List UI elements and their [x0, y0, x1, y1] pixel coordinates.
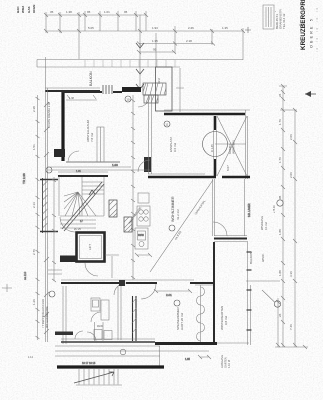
svg-text:WINDFANG: WINDFANG: [260, 216, 264, 230]
svg-text:95: 95: [124, 10, 128, 14]
svg-text:1.93: 1.93: [112, 163, 118, 167]
dining west double wall line: [149, 95, 152, 174]
nook labels: [210, 140, 236, 171]
svg-text:R 1.45: R 1.45: [210, 144, 214, 152]
stair entry door arc: [60, 217, 75, 232]
living room diagonal dimension: [150, 180, 213, 272]
dining nook top wall: [164, 110, 250, 114]
svg-text:1.51: 1.51: [32, 144, 36, 150]
benchmark cross: [245, 27, 251, 33]
stairwell wall stubs: [40, 179, 58, 181]
windfang note: [260, 216, 268, 230]
svg-text:WMZ: WMZ: [21, 6, 25, 13]
svg-text:1.26: 1.26: [32, 299, 36, 305]
passage verticals: [213, 179, 252, 236]
svg-text:1.93: 1.93: [152, 26, 158, 30]
corridor upper boundary lines: [48, 163, 150, 173]
glass east wall: [246, 110, 248, 179]
svg-text:41.2 m2: 41.2 m2: [176, 209, 180, 220]
wintergarten label: [220, 306, 228, 330]
storage room label: [86, 119, 94, 142]
south facade thick wall: [57, 365, 164, 368]
svg-text:2.38: 2.38: [32, 106, 36, 112]
left dimension numbers: [32, 106, 36, 305]
pier left of mid wall gap: [119, 280, 125, 286]
kitchen appliances: [135, 193, 152, 257]
svg-text:BALKON: BALKON: [249, 252, 253, 264]
storage room door arc: [68, 151, 79, 162]
svg-text:HART 20 m2: HART 20 m2: [180, 312, 184, 330]
door jamb hatch: [103, 85, 112, 94]
right dimension numbers: [273, 93, 293, 330]
svg-text:26: 26: [278, 313, 282, 317]
stairwell outer wall hatched: [42, 178, 44, 233]
hatched pier lower: [124, 217, 132, 232]
svg-text:11: 11: [165, 122, 168, 126]
svg-text:10: 10: [126, 97, 130, 101]
address small text block: [275, 8, 286, 29]
round table: [203, 132, 228, 157]
wall chunk west of lift: [60, 256, 77, 263]
margin note left low: [41, 291, 55, 328]
wall over wintergarten: [195, 284, 213, 286]
svg-text:TEL 614 32: TEL 614 32: [282, 13, 286, 29]
dining nook west wall: [214, 116, 217, 176]
svg-text:KREUZBERGPRI: KREUZBERGPRI: [300, 0, 307, 50]
svg-text:2.01: 2.01: [166, 293, 172, 297]
lower stair steps: [74, 220, 122, 385]
svg-text:18 17 16 15: 18 17 16 15: [82, 362, 96, 365]
svg-text:9.8 m2: 9.8 m2: [224, 315, 228, 325]
svg-text:BAD: BAD: [16, 6, 20, 13]
svg-text:WOHNZIMMER: WOHNZIMMER: [171, 196, 175, 222]
svg-text:1.76: 1.76: [278, 157, 282, 163]
svg-text:60/60: 60/60: [138, 235, 144, 237]
wall pier blob: [54, 149, 65, 157]
svg-text:1.14: 1.14: [28, 356, 33, 359]
svg-text:OFEN: OFEN: [32, 5, 36, 13]
terrace door swing arc: [138, 95, 150, 107]
lift shaft: [77, 233, 105, 262]
inner left dimension segment: [52, 177, 56, 282]
svg-text:*: *: [275, 11, 278, 12]
wintergarten west wall: [213, 242, 215, 344]
svg-text:+75.00: +75.00: [273, 205, 276, 213]
storage shelf line: [66, 99, 97, 101]
chimney hatch block: [143, 83, 166, 103]
svg-text:1.88: 1.88: [278, 229, 282, 235]
chimney shaft: [156, 67, 185, 112]
left outer wall: [46, 57, 48, 342]
svg-text:BALKON: BALKON: [89, 71, 93, 86]
nook diagonals: [215, 116, 247, 176]
dimension extension verticals top: [46, 11, 243, 88]
top dimension chain row 3: [137, 42, 215, 46]
svg-text:2.06: 2.06: [289, 134, 293, 140]
right dimension chain: [275, 84, 308, 349]
masonry hatch ticks: [44, 102, 49, 334]
dimension numbers top: [50, 10, 303, 52]
svg-text:1.35: 1.35: [152, 39, 158, 43]
lift door arc: [85, 263, 98, 276]
top dimension chain row 4: [137, 50, 176, 54]
svg-text:ZU 25: ZU 25: [74, 228, 81, 231]
hatched pier right of stair: [109, 200, 117, 217]
stamp box title block: [263, 5, 274, 29]
svg-text:5.05: 5.05: [88, 26, 94, 30]
svg-text:2.13: 2.13: [32, 202, 36, 208]
corridor dim line mid: [131, 95, 135, 280]
far left ticks: [2, 173, 27, 292]
upper stair: [58, 172, 108, 231]
north arrow flag: [305, 91, 316, 97]
hall bottom wall stub: [55, 332, 73, 336]
svg-text:LIFT: LIFT: [88, 244, 92, 250]
svg-text:WINDF.: WINDF.: [262, 253, 265, 262]
svg-text:90/20: 90/20: [97, 325, 104, 328]
svg-text:B.R. LAGER: B.R. LAGER: [248, 203, 251, 217]
svg-text:7.8 m2: 7.8 m2: [90, 132, 94, 142]
legend labels top-left: [16, 5, 36, 13]
terrace edge lines: [37, 60, 243, 68]
room tag 10: [125, 96, 131, 102]
svg-text:95: 95: [153, 48, 157, 52]
svg-text:35: 35: [50, 10, 54, 14]
level arrows on grid line: [136, 43, 144, 89]
hatched wall pier mid: [138, 157, 151, 172]
svg-text:TR 2.38: TR 2.38: [22, 173, 26, 184]
svg-text:1.38: 1.38: [66, 10, 72, 14]
lower corridor lines: [55, 346, 209, 356]
living room label: [169, 196, 180, 231]
svg-text:2.06: 2.06: [289, 172, 293, 178]
south wall band: [61, 339, 249, 344]
svg-text:95: 95: [87, 10, 91, 14]
svg-text:GAS: GAS: [27, 6, 31, 13]
top dimension chain row 1: [44, 13, 148, 17]
svg-text:GARTEN: GARTEN: [224, 357, 228, 368]
exit note: [220, 355, 231, 368]
storage room closet: [97, 127, 104, 162]
svg-text:2.76: 2.76: [32, 249, 36, 255]
garden dim ticks: [185, 355, 211, 361]
chain circled tags: [262, 200, 283, 307]
svg-text:MIT GARDEROBE: MIT GARDEROBE: [45, 306, 49, 328]
east balcony walls: [214, 236, 280, 282]
svg-text:1.35: 1.35: [222, 26, 228, 30]
svg-text:26: 26: [278, 93, 282, 97]
lintel bar: [122, 87, 141, 92]
svg-text:95: 95: [278, 195, 282, 199]
hall fixtures WC: [63, 286, 137, 344]
north facade wall: [45, 85, 141, 94]
svg-text:LICHTE RAUMH. 2.38: LICHTE RAUMH. 2.38: [47, 101, 51, 128]
wintergarten east glass: [248, 241, 251, 345]
svg-text:8.07: 8.07: [226, 165, 230, 171]
svg-text:WOHNEN: WOHNEN: [232, 140, 236, 154]
kitchen label: [164, 121, 177, 152]
top dimension chain row 2: [44, 29, 245, 33]
corridor lines right of lift: [48, 255, 119, 278]
south wall living room: [148, 176, 250, 179]
svg-text:1.88: 1.88: [278, 270, 282, 276]
svg-text:2.18: 2.18: [186, 39, 192, 43]
left dimension chain: [36, 95, 40, 340]
svg-text:9.6 m2: 9.6 m2: [173, 142, 177, 152]
svg-text:1.85: 1.85: [185, 358, 190, 361]
stair landing lines: [60, 220, 96, 228]
fold mark dashes right edge: [316, 8, 318, 52]
dining room label: [174, 300, 184, 330]
svg-text:1.01: 1.01: [76, 170, 81, 173]
svg-text:7 TREPPENHAUS FLUR: 7 TREPPENHAUS FLUR: [41, 299, 45, 328]
svg-text:4.1 m2: 4.1 m2: [264, 222, 268, 230]
svg-text:1.76: 1.76: [278, 119, 282, 125]
storage room walls: [62, 92, 122, 162]
stair tag: [46, 167, 52, 173]
svg-text:AUSGANG: AUSGANG: [220, 355, 224, 368]
svg-text:3.36: 3.36: [289, 271, 293, 277]
svg-text:1.01: 1.01: [104, 10, 110, 14]
svg-text:7.46: 7.46: [289, 324, 293, 330]
mid wall small dims: [154, 289, 192, 297]
hall lower fixtures: [75, 322, 160, 367]
folding glass door scallops: [197, 285, 205, 342]
svg-text:OBERE 5: OBERE 5: [310, 17, 314, 48]
svg-text:ca 2.0: ca 2.0: [23, 271, 27, 280]
svg-text:2.26: 2.26: [188, 26, 194, 30]
svg-text:1.10 M: 1.10 M: [227, 360, 231, 368]
middle wall band: [61, 280, 213, 299]
